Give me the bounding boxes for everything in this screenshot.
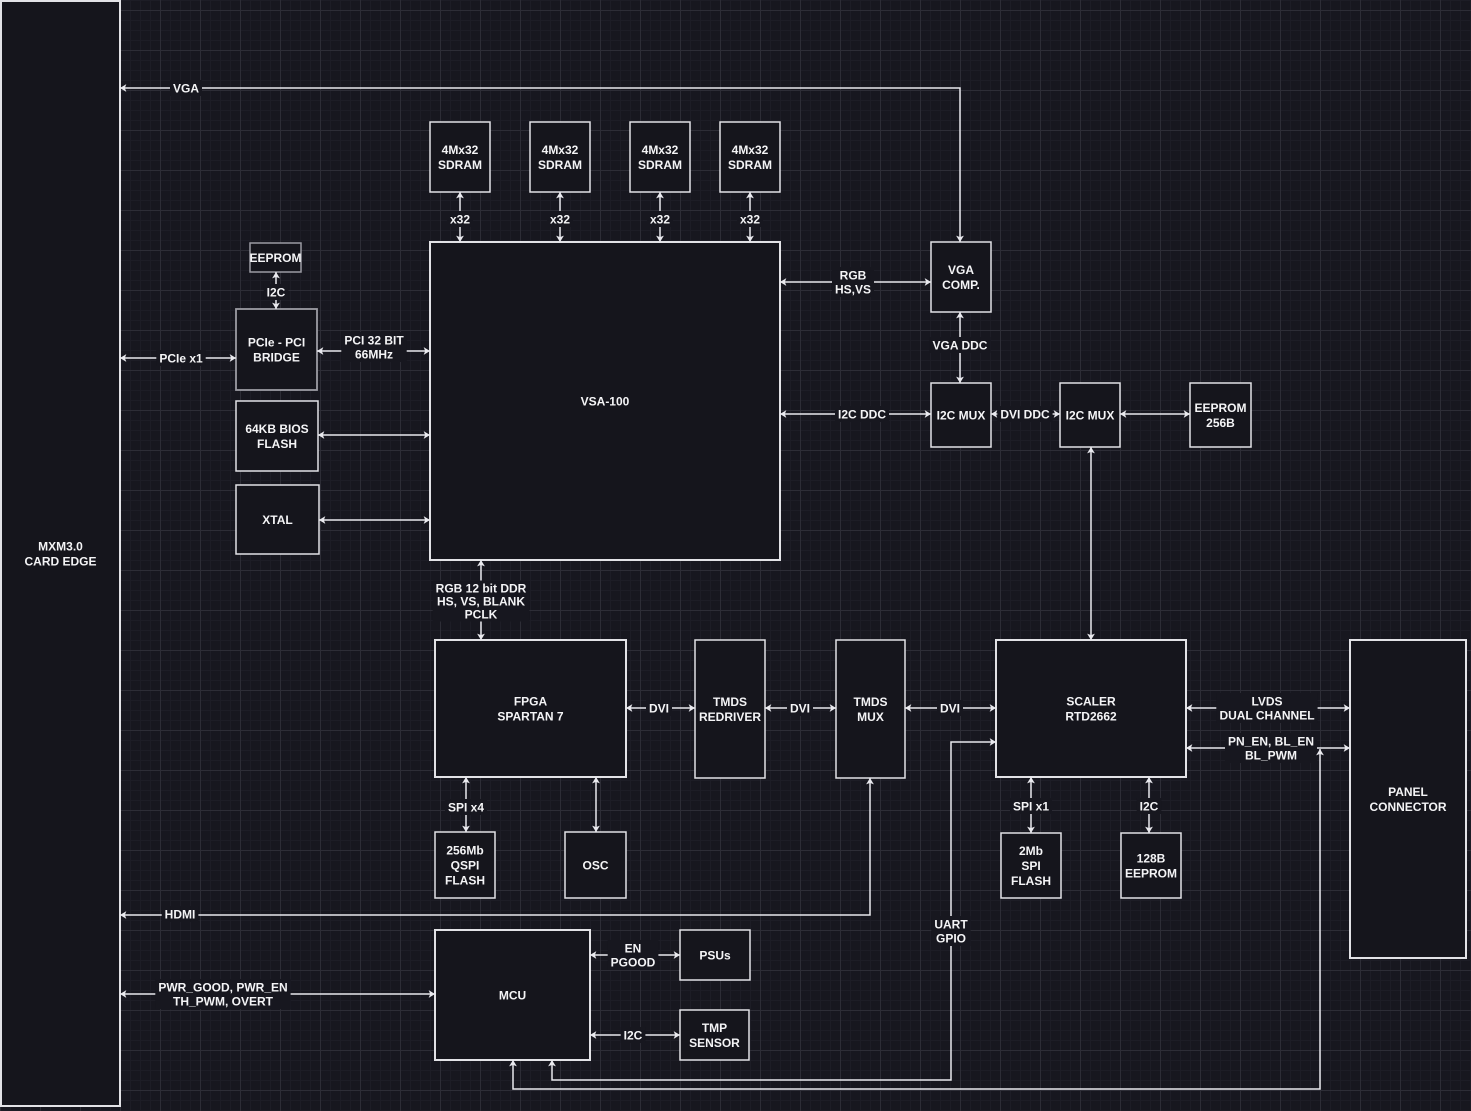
label x32 3 <box>647 211 673 227</box>
block PANEL CONNECTOR <box>1350 640 1466 958</box>
svg-text:PSUs: PSUs <box>699 948 731 962</box>
label VGA DDC <box>929 337 990 353</box>
svg-text:VGA: VGA <box>173 81 199 95</box>
svg-text:TH_PWM, OVERT: TH_PWM, OVERT <box>173 994 274 1008</box>
wire I2C scaler-eeprom <box>1148 777 1150 833</box>
svg-text:SCALER: SCALER <box>1066 694 1116 708</box>
label VGA <box>170 80 202 96</box>
label UART GPIO <box>931 916 970 946</box>
block VSA-100 <box>430 242 780 560</box>
block PSUs <box>680 930 750 980</box>
block VGA COMP. <box>931 242 991 312</box>
svg-text:FLASH: FLASH <box>445 873 485 887</box>
label PCI 32 BIT 66MHz <box>341 332 406 362</box>
svg-text:QSPI: QSPI <box>451 858 480 872</box>
svg-text:FLASH: FLASH <box>257 437 297 451</box>
wire I2C DDC <box>780 413 931 415</box>
block 64KB BIOS FLASH <box>236 401 318 471</box>
svg-text:x32: x32 <box>550 212 570 226</box>
svg-text:UART: UART <box>934 917 968 931</box>
block TMP SENSOR <box>680 1010 749 1060</box>
svg-text:4Mx32: 4Mx32 <box>442 143 479 157</box>
svg-text:LVDS: LVDS <box>1251 694 1282 708</box>
label x32 4 <box>737 211 763 227</box>
block TMDS MUX <box>836 640 905 778</box>
svg-text:MCU: MCU <box>499 988 526 1002</box>
label HDMI <box>162 906 199 922</box>
svg-text:x32: x32 <box>740 212 760 226</box>
svg-text:256Mb: 256Mb <box>446 843 483 857</box>
svg-text:PWR_GOOD, PWR_EN: PWR_GOOD, PWR_EN <box>158 980 287 994</box>
block OSC <box>565 832 626 898</box>
svg-text:FLASH: FLASH <box>1011 874 1051 888</box>
svg-text:x32: x32 <box>650 212 670 226</box>
svg-text:TMDS: TMDS <box>713 695 747 709</box>
svg-text:RGB 12 bit DDR: RGB 12 bit DDR <box>436 581 527 595</box>
wire BIOS-VSA <box>318 434 430 436</box>
block 4Mx32 SDRAM 4 <box>720 122 780 192</box>
svg-text:DVI DDC: DVI DDC <box>1000 407 1050 421</box>
svg-text:I2C MUX: I2C MUX <box>937 408 986 422</box>
wire I2CMUX2-SCALER <box>1090 447 1092 640</box>
wire x32 sdram3 <box>659 192 661 242</box>
wire PN_EN BL_EN <box>1186 747 1350 749</box>
svg-text:SPI x4: SPI x4 <box>448 800 484 814</box>
svg-text:COMP.: COMP. <box>942 278 980 292</box>
svg-text:CONNECTOR: CONNECTOR <box>1369 800 1446 814</box>
block 128B EEPROM <box>1121 833 1181 898</box>
svg-text:MXM3.0: MXM3.0 <box>38 539 83 553</box>
wire I2C bridge-EEPROM <box>275 272 277 309</box>
svg-text:64KB BIOS: 64KB BIOS <box>245 422 308 436</box>
wire UART GPIO <box>552 742 996 1080</box>
svg-text:PCIe - PCI: PCIe - PCI <box>248 335 305 349</box>
wire PCIe x1 <box>120 357 236 359</box>
label SPI x4 <box>445 799 487 815</box>
svg-text:DUAL CHANNEL: DUAL CHANNEL <box>1219 708 1314 722</box>
wire I2C mcu-tmp <box>590 1034 680 1036</box>
svg-text:SENSOR: SENSOR <box>689 1036 740 1050</box>
wire PCI 32bit <box>317 350 430 352</box>
label I2C (bridge) <box>264 284 289 300</box>
wire SPI x4 <box>465 777 467 832</box>
wire XTAL-VSA <box>319 519 430 521</box>
svg-text:I2C MUX: I2C MUX <box>1066 408 1115 422</box>
label EN PGOOD <box>608 940 659 970</box>
svg-text:EEPROM: EEPROM <box>249 251 301 265</box>
svg-text:EN: EN <box>625 941 642 955</box>
wire VGA <box>120 88 960 242</box>
wire PWR_GOOD <box>120 993 435 995</box>
wire HDMI <box>120 778 870 915</box>
wire x32 sdram4 <box>749 192 751 242</box>
svg-text:I2C: I2C <box>267 285 286 299</box>
block I2C MUX 1 <box>931 383 991 447</box>
svg-text:2Mb: 2Mb <box>1019 844 1043 858</box>
svg-text:DVI: DVI <box>649 701 669 715</box>
wire DVI DDC <box>991 413 1060 415</box>
label SPI x1 <box>1010 798 1052 814</box>
svg-text:PANEL: PANEL <box>1388 785 1428 799</box>
svg-text:SDRAM: SDRAM <box>638 158 682 172</box>
svg-text:BRIDGE: BRIDGE <box>253 350 300 364</box>
svg-text:256B: 256B <box>1206 416 1235 430</box>
svg-text:VSA-100: VSA-100 <box>581 394 630 408</box>
svg-text:VGA: VGA <box>948 263 974 277</box>
svg-text:66MHz: 66MHz <box>355 347 393 361</box>
svg-text:PN_EN, BL_EN: PN_EN, BL_EN <box>1228 734 1314 748</box>
svg-text:GPIO: GPIO <box>936 931 966 945</box>
svg-text:HDMI: HDMI <box>165 907 196 921</box>
svg-text:VGA DDC: VGA DDC <box>933 338 988 352</box>
svg-text:EEPROM: EEPROM <box>1194 401 1246 415</box>
svg-text:PCI 32 BIT: PCI 32 BIT <box>344 333 404 347</box>
block TMDS REDRIVER <box>695 640 765 778</box>
svg-text:DVI: DVI <box>940 701 960 715</box>
block FPGA SPARTAN 7 <box>435 640 626 777</box>
svg-text:4Mx32: 4Mx32 <box>542 143 579 157</box>
svg-text:RGB: RGB <box>840 268 867 282</box>
label PN_EN BL_EN BL_PWM <box>1225 733 1317 763</box>
svg-text:PGOOD: PGOOD <box>611 955 656 969</box>
svg-text:4Mx32: 4Mx32 <box>732 143 769 157</box>
block 4Mx32 SDRAM 2 <box>530 122 590 192</box>
label I2C DDC <box>835 406 889 422</box>
block SCALER RTD2662 <box>996 640 1186 777</box>
svg-text:CARD EDGE: CARD EDGE <box>24 554 96 568</box>
block 4Mx32 SDRAM 1 <box>430 122 490 192</box>
wire x32 sdram1 <box>459 192 461 242</box>
block I2C MUX 2 <box>1060 383 1120 447</box>
svg-text:HS,VS: HS,VS <box>835 282 871 296</box>
svg-text:I2C: I2C <box>624 1028 643 1042</box>
wire DVI fpga-redriver <box>626 707 695 709</box>
label PCIe x1 <box>156 350 205 366</box>
wire FPGA-OSC <box>595 777 597 832</box>
svg-text:I2C DDC: I2C DDC <box>838 407 886 421</box>
svg-text:FPGA: FPGA <box>514 694 548 708</box>
label DVI DDC <box>997 406 1052 422</box>
wire SPI x1 <box>1030 777 1032 833</box>
svg-text:PCLK: PCLK <box>465 607 498 621</box>
svg-text:PCIe x1: PCIe x1 <box>159 351 203 365</box>
label DVI 2 <box>787 700 813 716</box>
svg-text:RTD2662: RTD2662 <box>1065 709 1117 723</box>
block EEPROM 256B <box>1190 383 1251 447</box>
label DVI 3 <box>937 700 963 716</box>
label PWR_GOOD PWR_EN <box>155 979 290 1009</box>
svg-text:SPI x1: SPI x1 <box>1013 799 1049 813</box>
block 2Mb SPI FLASH <box>1001 833 1061 898</box>
wire RGB HS,VS <box>780 281 931 283</box>
block PCIe - PCI BRIDGE <box>236 309 317 390</box>
svg-text:SPARTAN 7: SPARTAN 7 <box>497 709 564 723</box>
label RGB 12 bit DDR <box>433 581 530 622</box>
svg-text:128B: 128B <box>1137 851 1166 865</box>
wire VGA DDC <box>959 312 961 383</box>
block 4Mx32 SDRAM 3 <box>630 122 690 192</box>
label LVDS DUAL CHANNEL <box>1216 693 1317 723</box>
svg-text:SDRAM: SDRAM <box>728 158 772 172</box>
svg-text:OSC: OSC <box>582 858 608 872</box>
wire RGB 12bit DDR <box>480 560 482 640</box>
svg-text:XTAL: XTAL <box>262 513 292 527</box>
svg-text:EEPROM: EEPROM <box>1125 866 1177 880</box>
wire DVI redriver-mux <box>765 707 836 709</box>
block MXM3.0 CARD EDGE <box>1 1 120 1106</box>
wire LVDS <box>1186 707 1350 709</box>
svg-text:REDRIVER: REDRIVER <box>699 710 761 724</box>
svg-text:MUX: MUX <box>857 710 884 724</box>
block 256Mb QSPI FLASH <box>435 832 495 898</box>
label I2C (eeprom 128B) <box>1137 798 1162 814</box>
label RGB HS,VS <box>832 267 874 297</box>
svg-text:SPI: SPI <box>1021 859 1040 873</box>
label x32 1 <box>447 211 473 227</box>
label DVI 1 <box>646 700 672 716</box>
wire I2CMUX2-EEPROM256 <box>1120 413 1190 415</box>
svg-text:DVI: DVI <box>790 701 810 715</box>
svg-text:TMDS: TMDS <box>854 695 888 709</box>
wire EN PGOOD <box>590 954 680 956</box>
wire DVI mux-scaler <box>905 707 996 709</box>
svg-text:SDRAM: SDRAM <box>538 158 582 172</box>
svg-text:x32: x32 <box>450 212 470 226</box>
wire x32 sdram2 <box>559 192 561 242</box>
wire MCU-PN_EN feedback <box>513 749 1320 1089</box>
block MCU <box>435 930 590 1060</box>
label x32 2 <box>547 211 573 227</box>
label I2C (tmp) <box>621 1027 646 1043</box>
svg-text:SDRAM: SDRAM <box>438 158 482 172</box>
svg-text:4Mx32: 4Mx32 <box>642 143 679 157</box>
svg-text:I2C: I2C <box>1140 799 1159 813</box>
svg-text:TMP: TMP <box>702 1021 727 1035</box>
block EEPROM (bridge) <box>249 243 301 272</box>
svg-text:HS, VS, BLANK: HS, VS, BLANK <box>437 594 525 608</box>
svg-text:BL_PWM: BL_PWM <box>1245 748 1297 762</box>
block XTAL <box>236 485 319 554</box>
